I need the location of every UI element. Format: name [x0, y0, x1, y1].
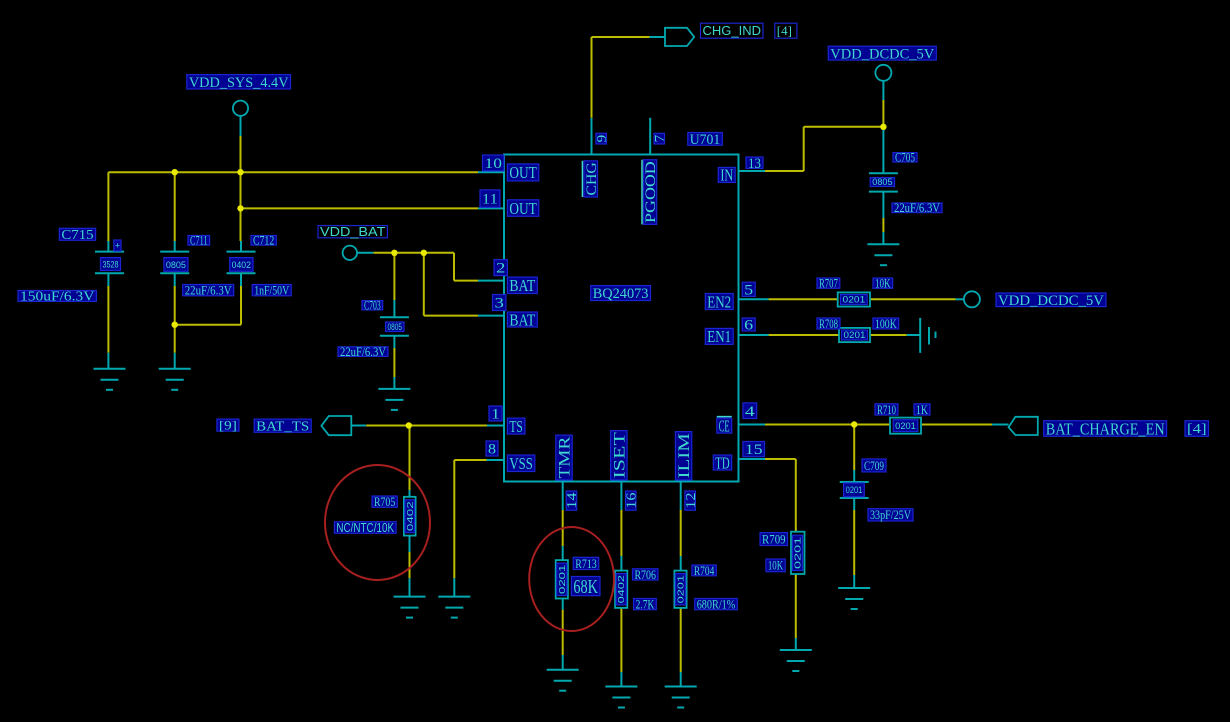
svg-text:+: +	[115, 241, 120, 251]
svg-text:0201: 0201	[846, 485, 863, 495]
svg-text:0402: 0402	[405, 501, 415, 531]
svg-text:0201: 0201	[843, 295, 866, 305]
svg-text:22uF/6.3V: 22uF/6.3V	[185, 284, 232, 298]
svg-text:150uF/6.3V: 150uF/6.3V	[20, 289, 95, 304]
svg-text:C712: C712	[253, 234, 274, 248]
svg-text:C711: C711	[190, 234, 208, 248]
svg-text:0201: 0201	[557, 564, 567, 594]
svg-text:C709: C709	[864, 459, 884, 473]
svg-text:14: 14	[564, 492, 579, 509]
svg-text:12: 12	[683, 492, 698, 508]
svg-text:OUT: OUT	[509, 199, 536, 218]
svg-text:0402: 0402	[616, 575, 626, 604]
svg-text:OUT: OUT	[509, 163, 536, 182]
svg-text:0201: 0201	[844, 330, 866, 340]
svg-text:C715: C715	[61, 227, 93, 242]
svg-text:BAT_CHARGE_EN: BAT_CHARGE_EN	[1046, 419, 1165, 438]
svg-text:CHG_IND: CHG_IND	[703, 23, 762, 38]
svg-text:R709: R709	[762, 532, 786, 546]
svg-text:22uF/6.3V: 22uF/6.3V	[894, 201, 940, 215]
svg-text:15: 15	[745, 442, 763, 458]
svg-text:BAT: BAT	[509, 310, 535, 329]
svg-text:22uF/6.3V: 22uF/6.3V	[340, 345, 386, 359]
svg-text:[9]: [9]	[219, 418, 237, 433]
svg-text:5: 5	[744, 282, 753, 298]
svg-text:0402: 0402	[232, 260, 251, 271]
svg-text:7: 7	[652, 135, 667, 143]
svg-text:13: 13	[748, 156, 761, 172]
svg-text:CHG: CHG	[584, 162, 600, 196]
svg-text:3: 3	[495, 296, 504, 312]
svg-text:R713: R713	[575, 557, 597, 571]
svg-text:0805: 0805	[388, 322, 403, 332]
svg-text:6: 6	[744, 318, 753, 334]
svg-text:ISET: ISET	[611, 431, 628, 478]
svg-text:0201: 0201	[793, 536, 803, 569]
svg-text:3528: 3528	[103, 259, 119, 270]
svg-text:9: 9	[594, 135, 609, 143]
svg-text:16: 16	[624, 492, 639, 509]
svg-text:TS: TS	[509, 417, 523, 436]
svg-text:8: 8	[488, 442, 496, 458]
svg-text:VDD_SYS_4.4V: VDD_SYS_4.4V	[189, 75, 289, 91]
svg-text:1K: 1K	[916, 403, 928, 417]
svg-text:R704: R704	[694, 564, 715, 578]
svg-text:VDD_DCDC_5V: VDD_DCDC_5V	[998, 293, 1104, 309]
svg-text:68K: 68K	[573, 576, 598, 598]
svg-text:R705: R705	[374, 495, 395, 509]
svg-text:EN1: EN1	[707, 327, 731, 346]
svg-text:4: 4	[745, 404, 756, 420]
svg-text:1: 1	[491, 407, 500, 423]
svg-text:0805: 0805	[166, 260, 186, 271]
svg-text:10K: 10K	[768, 559, 783, 573]
svg-text:R708: R708	[819, 317, 838, 331]
svg-text:0805: 0805	[872, 177, 892, 187]
svg-text:TMR: TMR	[556, 436, 573, 479]
svg-text:C705: C705	[895, 151, 915, 165]
svg-text:0201: 0201	[895, 421, 916, 431]
svg-text:R706: R706	[634, 568, 656, 582]
svg-text:NC/NTC/10K: NC/NTC/10K	[336, 521, 394, 535]
svg-text:BAT: BAT	[509, 276, 535, 295]
svg-text:10: 10	[485, 156, 502, 172]
svg-text:ILIM: ILIM	[676, 433, 693, 479]
svg-text:VSS: VSS	[509, 454, 532, 473]
svg-text:U701: U701	[690, 132, 721, 148]
svg-text:2.7K: 2.7K	[636, 598, 655, 612]
svg-text:PGOOD: PGOOD	[643, 161, 659, 223]
svg-text:2: 2	[496, 261, 505, 277]
svg-text:BAT_TS: BAT_TS	[256, 418, 309, 433]
svg-text:33pF/25V: 33pF/25V	[870, 508, 911, 522]
svg-text:C703: C703	[364, 299, 381, 313]
svg-text:1nF/50V: 1nF/50V	[254, 284, 289, 298]
svg-text:VDD_DCDC_5V: VDD_DCDC_5V	[830, 46, 934, 62]
svg-text:TD: TD	[715, 453, 729, 472]
svg-text:IN: IN	[720, 166, 733, 185]
svg-text:680R/1%: 680R/1%	[697, 598, 736, 612]
svg-text:EN2: EN2	[707, 292, 731, 311]
svg-text:[4]: [4]	[777, 23, 792, 38]
svg-text:R707: R707	[819, 277, 838, 291]
svg-text:CE: CE	[719, 416, 730, 435]
svg-text:0201: 0201	[676, 575, 686, 604]
svg-text:11: 11	[482, 192, 498, 208]
svg-text:100K: 100K	[875, 317, 897, 331]
svg-text:VDD_BAT: VDD_BAT	[320, 225, 386, 239]
svg-text:10K: 10K	[875, 277, 891, 291]
svg-text:BQ24073: BQ24073	[593, 286, 649, 302]
svg-text:R710: R710	[877, 403, 896, 417]
svg-text:[4]: [4]	[1187, 421, 1207, 436]
